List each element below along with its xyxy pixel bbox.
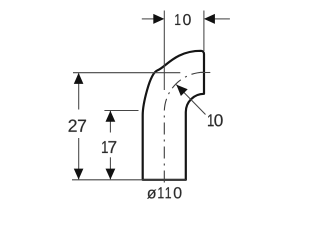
radius leader line [176, 85, 205, 115]
dimension 17 line upper segment [109, 111, 111, 133]
top dimension 10 extension line left [163, 11, 165, 91]
dimension 27 arrow up [74, 73, 84, 84]
dimension 17 label [102, 141, 116, 153]
top dimension 10 left arrow [153, 14, 164, 24]
radius leader arrow [176, 85, 187, 96]
dimension 17 arrow down [106, 169, 116, 180]
dimension 27 label [69, 120, 86, 132]
outlet axis extension line for dimension 27 [73, 72, 180, 74]
pipe centerline (dash-dot) [164, 72, 204, 182]
outlet axis overhang line [200, 72, 211, 74]
dimension 17 arrow up [106, 111, 116, 122]
dimension 17 line lower segment [109, 157, 111, 179]
top dimension 10 label [175, 14, 191, 25]
top dimension 10 extension line right [203, 11, 205, 52]
pipe elbow body outline [143, 51, 204, 180]
top dimension 10 right tail line [215, 18, 230, 20]
datum extension line at pipe bottom [72, 179, 186, 181]
dimension 27 arrow down [74, 169, 84, 180]
diameter 110 label [147, 187, 181, 198]
dimension 27 line lower segment [78, 138, 80, 179]
top dimension 10 left tail line [142, 18, 154, 20]
radius 10 label [208, 114, 223, 126]
top dimension 10 right arrow [204, 14, 215, 24]
extension line for dimension 17 [104, 110, 138, 112]
dimension 27 line upper segment [78, 73, 80, 109]
